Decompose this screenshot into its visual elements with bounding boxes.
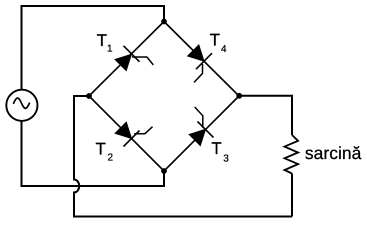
wire: top from AC source to top node: [22, 6, 165, 90]
node right: [236, 93, 242, 99]
svg-text:4: 4: [221, 44, 227, 55]
wire: bridge arm left node to bottom node: [89, 96, 164, 171]
wire: bridge arm bottom node to right node: [164, 96, 239, 171]
thyristor T2: [115, 122, 152, 146]
svg-text:3: 3: [223, 153, 229, 164]
node top: [161, 19, 167, 25]
thyristor T3: [189, 107, 213, 146]
wire: right node to load top: [239, 96, 292, 135]
svg-text:2: 2: [108, 153, 114, 164]
svg-text:T: T: [97, 31, 107, 50]
wire: left node stub with hop over lower wire: [74, 96, 292, 217]
wire: bridge arm left node to top node: [89, 22, 164, 97]
wire: load bottom: [291, 174, 293, 217]
resistor (load): [285, 135, 299, 174]
svg-text:sarcină: sarcină: [305, 143, 362, 163]
AC source: [6, 90, 37, 121]
node bottom: [161, 168, 167, 174]
thyristor T4: [188, 45, 212, 83]
wire: AC source bottom down and right to bottom-node stub: [22, 121, 165, 186]
wire: bridge arm top node to right node: [164, 22, 239, 97]
svg-text:T: T: [210, 31, 220, 50]
svg-text:T: T: [211, 139, 221, 158]
thyristor T1: [115, 46, 153, 71]
svg-text:T: T: [96, 139, 106, 158]
svg-text:1: 1: [107, 44, 113, 55]
node left: [86, 93, 92, 99]
